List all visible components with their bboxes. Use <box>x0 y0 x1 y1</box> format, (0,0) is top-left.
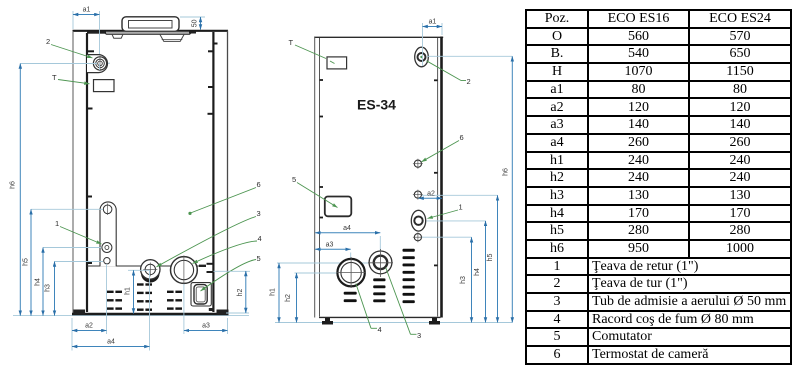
label 5 leader (rear) <box>292 175 338 208</box>
svg-text:50: 50 <box>192 19 199 27</box>
svg-text:h3: h3 <box>45 284 52 292</box>
chimney circle 4 (rear large) <box>337 257 366 288</box>
vent slots rear <box>344 249 415 303</box>
pipe fitting 3 (small circle) <box>141 260 160 283</box>
label 2 leader <box>46 37 93 58</box>
dimension a4 drawing1 <box>72 271 150 351</box>
svg-text:3: 3 <box>417 331 421 340</box>
svg-text:a2: a2 <box>85 323 93 330</box>
small circle h3 ref <box>413 232 423 242</box>
feet 2 <box>322 318 333 325</box>
svg-text:5: 5 <box>292 175 296 184</box>
floor line <box>13 315 249 317</box>
thermostat box T2 <box>327 57 347 69</box>
body outline 2 <box>314 37 443 318</box>
interior shelf <box>87 265 205 267</box>
panel ticks 2 <box>320 80 438 265</box>
label 1 leader (rear) <box>428 203 463 219</box>
svg-text:T: T <box>52 73 57 82</box>
small circle h5 ref <box>413 190 423 200</box>
svg-text:a4: a4 <box>107 339 115 346</box>
tray trapezoid <box>160 34 184 41</box>
dimension h5 <box>23 209 104 315</box>
svg-text:h6: h6 <box>502 168 509 176</box>
top tray <box>106 32 190 34</box>
small circle (room thermostat pass) 6 <box>413 159 423 169</box>
thermostat box T <box>94 80 115 92</box>
label 1 leader <box>55 219 102 244</box>
svg-text:h2: h2 <box>237 289 244 297</box>
label 5 leader <box>201 254 261 291</box>
dimension h2 drawing1 <box>214 271 251 313</box>
dimension a2 <box>72 264 107 351</box>
svg-text:a1: a1 <box>83 7 91 14</box>
svg-text:h5: h5 <box>487 254 494 262</box>
svg-text:h3: h3 <box>460 276 467 284</box>
dimension h1 (rear) <box>270 263 373 323</box>
tray notch left <box>112 34 123 38</box>
svg-text:6: 6 <box>257 180 261 189</box>
label 6 leader (rear) <box>422 133 464 162</box>
pipe fitting 4 (large circle) <box>171 256 198 285</box>
dimension a2 (rear) <box>419 190 443 198</box>
label 3 leader (rear) <box>386 268 421 340</box>
dimension h3 <box>45 262 104 316</box>
vent slots drawing1 <box>107 283 182 311</box>
svg-text:h4: h4 <box>35 278 42 286</box>
dimension h1 drawing1 <box>125 270 151 313</box>
svg-text:h6: h6 <box>10 181 17 189</box>
svg-text:3: 3 <box>257 209 261 218</box>
feet blocks <box>74 310 86 315</box>
dimension h4 (rear) <box>427 221 486 323</box>
svg-text:a3: a3 <box>326 241 334 248</box>
dimension h2 (rear) <box>285 273 340 323</box>
top lid <box>122 17 179 32</box>
svg-text:h5: h5 <box>23 258 30 266</box>
svg-text:1: 1 <box>55 219 59 228</box>
dimension a1 <box>73 7 100 59</box>
svg-text:h4: h4 <box>474 268 481 276</box>
svg-text:a3: a3 <box>202 323 210 330</box>
svg-text:5: 5 <box>257 254 261 263</box>
dimension a3 drawing1 <box>184 284 228 334</box>
boiler body outline <box>72 31 229 315</box>
label 4 leader <box>193 234 262 264</box>
dimension a1 (rear) <box>423 19 443 67</box>
label T leader <box>52 73 90 84</box>
label 6 leader + dot <box>188 180 260 215</box>
pipe fitting 2 (tur) <box>87 55 110 73</box>
svg-text:a1: a1 <box>429 19 437 26</box>
dimension 50 (lid height) <box>180 17 205 30</box>
panel ticks <box>87 44 218 273</box>
svg-text:h1: h1 <box>125 287 132 295</box>
svg-text:a2: a2 <box>427 190 435 197</box>
svg-text:a4: a4 <box>343 225 351 232</box>
label T2 leader <box>289 38 327 59</box>
svg-text:1: 1 <box>459 203 463 212</box>
svg-text:2: 2 <box>46 37 50 46</box>
label 4 leader (rear) <box>356 284 382 334</box>
oval fitting 1 (retur rear) <box>411 210 425 231</box>
data table <box>525 9 792 365</box>
svg-text:T: T <box>289 38 294 47</box>
switch 5 <box>191 283 211 306</box>
dimension h5 (rear) <box>422 195 498 322</box>
dimension h6 <box>10 64 100 316</box>
dimension a3 (rear) <box>315 241 351 258</box>
svg-text:h1: h1 <box>270 288 277 296</box>
dimension h3 (rear) <box>422 237 472 322</box>
label 2 leader (rear) <box>427 61 471 86</box>
label 3 leader <box>157 209 261 267</box>
dimension h6 (rear) <box>427 56 512 322</box>
floor line 2 <box>275 322 512 324</box>
air intake circle 3 (rear) <box>368 249 393 277</box>
dimension a4 (rear) <box>315 225 380 252</box>
svg-text:ES-34: ES-34 <box>357 97 396 113</box>
mounting bracket 1 <box>100 202 116 267</box>
svg-text:6: 6 <box>460 133 464 142</box>
oval fitting 2 (rear) <box>415 47 429 67</box>
svg-text:h2: h2 <box>285 294 292 302</box>
svg-text:4: 4 <box>378 325 382 334</box>
switch box 5 (rear) <box>325 197 352 217</box>
dimension h4 <box>35 248 102 316</box>
svg-text:2: 2 <box>467 77 471 86</box>
svg-text:4: 4 <box>258 234 262 243</box>
